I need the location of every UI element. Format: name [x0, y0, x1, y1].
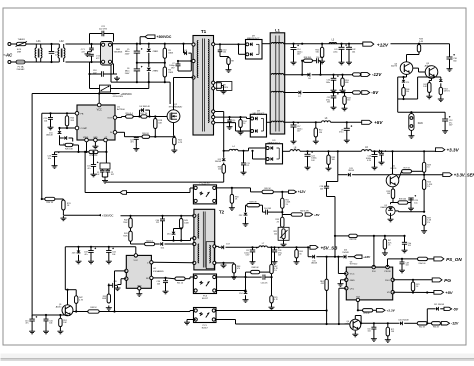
wire CX1 top	[51, 44, 53, 51]
inductor L1	[270, 27, 285, 134]
svg-text:104: 104	[49, 323, 52, 325]
capacitor C45	[246, 275, 273, 285]
svg-text:ZNR1: ZNR1	[153, 51, 159, 53]
wire FAN drop	[398, 99, 445, 116]
diode D20	[398, 320, 417, 326]
resistor R65	[262, 188, 273, 193]
svg-text:R48 10K: R48 10K	[249, 202, 257, 204]
wire Q1 base	[73, 311, 88, 313]
ground ZD4	[243, 298, 249, 303]
net tag +3.3V	[436, 148, 460, 153]
capacitor C35	[108, 281, 121, 290]
ground R52	[57, 329, 63, 334]
net tag +12V vdd	[354, 255, 371, 259]
resistor R58	[301, 57, 312, 63]
transistor Q8b	[425, 63, 438, 78]
wire Q1 collector	[65, 247, 76, 305]
shunt reg U5 KIA431	[380, 205, 398, 217]
ground C37	[250, 260, 256, 265]
IC U3 supervisor	[345, 261, 395, 301]
varistor ZNR1	[147, 43, 159, 64]
net tag -12Vb	[441, 322, 459, 326]
svg-text:250VAC: 250VAC	[17, 68, 25, 71]
resistor R60a	[353, 73, 361, 76]
ground T2 sec	[221, 263, 227, 268]
ground R44b	[342, 106, 348, 111]
wire U5 node	[391, 201, 426, 213]
resistor R74	[411, 280, 419, 294]
svg-text:C44 103: C44 103	[264, 208, 271, 210]
resistor R16	[126, 113, 134, 118]
snubber C9	[218, 43, 227, 56]
resistor R46	[349, 234, 358, 241]
ground C20	[48, 125, 54, 130]
svg-text:R20 1K: R20 1K	[142, 133, 149, 135]
svg-text:GND: GND	[93, 137, 98, 139]
wire VDD line	[308, 247, 312, 256]
svg-text:OUT: OUT	[107, 118, 112, 120]
wire T1 centertap	[215, 83, 224, 89]
svg-text:1N4148: 1N4148	[46, 135, 53, 137]
ground C33	[88, 259, 94, 264]
capacitor C43	[339, 122, 352, 138]
svg-text:330K: 330K	[168, 53, 173, 55]
resistor R43	[123, 228, 132, 244]
svg-text:R50 1K: R50 1K	[46, 202, 53, 204]
bottom gray strip	[1, 354, 474, 362]
capacitor C28	[408, 195, 418, 206]
svg-text:10u: 10u	[48, 158, 51, 160]
svg-text:R65 5K: R65 5K	[264, 188, 271, 190]
wire Q1 to PC1	[99, 310, 193, 312]
capacitor C33	[84, 247, 96, 259]
inductor L3	[322, 118, 331, 122]
svg-text:222 1KV: 222 1KV	[99, 29, 108, 31]
net tag +300VDC	[139, 35, 172, 45]
resistor R12	[314, 122, 322, 139]
svg-text:D21 1N4148: D21 1N4148	[434, 304, 444, 306]
ground C12	[442, 129, 448, 134]
capacitor C42	[346, 44, 355, 65]
diode D6	[301, 73, 312, 80]
svg-text:100u: 100u	[326, 82, 330, 84]
svg-text:1%: 1%	[286, 204, 289, 206]
svg-text:104: 104	[223, 52, 226, 54]
svg-text:D17: D17	[226, 244, 229, 246]
capacitor C23	[47, 152, 59, 164]
resistor R75	[358, 309, 373, 316]
svg-text:680: 680	[345, 82, 348, 84]
svg-text:-5V: -5V	[371, 90, 379, 95]
capacitor C34	[106, 247, 116, 259]
ground C49	[402, 248, 408, 253]
svg-text:+3.3V: +3.3V	[447, 148, 460, 153]
diode D15	[311, 255, 327, 265]
ground U4	[136, 290, 142, 296]
resistor R26	[60, 138, 79, 152]
wire fb to PC2	[127, 188, 194, 193]
resistor R59	[341, 75, 349, 88]
shunt reg RE1	[320, 257, 328, 311]
svg-text:+12V: +12V	[363, 255, 371, 259]
wire sense drop	[338, 151, 348, 174]
capacitor CY2	[89, 54, 101, 62]
ground R22	[171, 148, 177, 153]
wire VDD drop	[327, 197, 337, 258]
diode D14b	[348, 168, 355, 177]
inductor L3a	[329, 40, 337, 44]
wire AC neutral	[11, 61, 16, 63]
capacitor C17	[291, 122, 303, 139]
svg-text:ZNR2: ZNR2	[153, 70, 159, 72]
svg-text:VCC: VCC	[133, 260, 138, 262]
wire -12V feed	[284, 61, 303, 75]
wire COMP net	[58, 127, 75, 131]
wire R33 to Q6	[407, 55, 420, 62]
svg-text:330: 330	[347, 100, 350, 102]
transistor Q6	[391, 62, 413, 75]
wire R65 to tag	[273, 191, 288, 193]
capacitor C21	[90, 26, 114, 44]
ground C14	[291, 60, 297, 65]
ground CY mid	[85, 52, 92, 57]
net tag PS_ON	[434, 257, 462, 262]
ground FAN	[408, 134, 414, 139]
resistor R53	[387, 187, 395, 201]
svg-text:R58 6.19K: R58 6.19K	[300, 211, 309, 213]
capacitor C31b	[87, 151, 98, 177]
svg-text:PC2 EL817: PC2 EL817	[200, 182, 211, 184]
svg-text:103: 103	[157, 284, 160, 286]
ground C16	[43, 329, 49, 334]
diode D16b	[215, 151, 226, 165]
wire bridge out minus	[111, 65, 170, 82]
wire D9b out	[283, 150, 290, 152]
svg-text:47u: 47u	[25, 323, 28, 325]
ground Q4	[352, 331, 358, 337]
capacitor C14	[291, 44, 303, 60]
wire T1 to D8 bot	[215, 123, 250, 131]
svg-text:10: 10	[427, 167, 429, 169]
capacitor C26	[366, 151, 380, 165]
net tag PG	[432, 278, 451, 284]
svg-text:C35: C35	[114, 281, 117, 283]
svg-text:GND: GND	[350, 280, 355, 282]
wire VR1 gnd	[283, 239, 285, 242]
wire to Q8c	[216, 311, 349, 326]
wire T2 drain	[153, 261, 194, 263]
wire D9 out	[262, 43, 271, 45]
wire cap row	[32, 314, 67, 316]
ground R56	[319, 59, 325, 64]
net tag fb arrow	[84, 151, 127, 195]
svg-text:750K: 750K	[123, 222, 128, 224]
svg-text:ICE3A0865: ICE3A0865	[153, 270, 164, 273]
resistor R5	[163, 43, 174, 64]
svg-text:PS_ON: PS_ON	[446, 257, 462, 262]
svg-text:750K: 750K	[123, 235, 128, 237]
svg-text:D10: D10	[167, 234, 170, 236]
svg-text:R8: R8	[231, 60, 233, 62]
capacitor C6	[125, 62, 143, 84]
capacitor C20	[44, 113, 53, 125]
ground C34	[106, 259, 112, 264]
resistor R51	[175, 277, 194, 285]
resistor R60b	[353, 91, 361, 94]
capacitor C41	[333, 44, 347, 60]
resistor R31	[62, 199, 72, 215]
optocoupler PC2	[193, 182, 216, 204]
net tag +3.3Vb	[373, 309, 396, 313]
svg-text:102: 102	[111, 174, 114, 176]
wire CT pin	[105, 142, 107, 163]
wire C18 ext	[114, 73, 118, 75]
resistor R61	[281, 192, 291, 212]
capacitor C56	[313, 57, 324, 75]
ground CT caps	[102, 178, 108, 183]
svg-text:R57 33: R57 33	[403, 168, 409, 170]
svg-text:1N4148: 1N4148	[348, 170, 354, 172]
svg-text:~115V-230V: ~115V-230V	[112, 96, 124, 98]
svg-text:1N4148: 1N4148	[215, 161, 221, 163]
ground U3 GND	[338, 280, 347, 287]
svg-text:C45 225: C45 225	[261, 282, 268, 284]
svg-text:+300VDC: +300VDC	[102, 213, 113, 217]
svg-text:C945: C945	[344, 323, 349, 325]
svg-text:+300VDC: +300VDC	[157, 35, 172, 39]
svg-text:560: 560	[453, 61, 456, 63]
wire U4 FB	[153, 277, 175, 279]
wire R50 row	[41, 198, 45, 200]
wire C1C2 gnd	[102, 177, 107, 178]
wire PC3 out	[217, 276, 247, 278]
wire R16-R17	[133, 116, 141, 118]
resistor R36	[218, 164, 226, 173]
ground U1 GND	[92, 144, 98, 149]
ground centertap	[221, 89, 227, 94]
resistor R37	[422, 215, 432, 228]
svg-text:R66 2K: R66 2K	[433, 327, 440, 329]
svg-text:+5V_SB: +5V_SB	[321, 245, 339, 250]
svg-text:104: 104	[408, 245, 411, 247]
net tag +3.3V_SEN	[424, 173, 474, 178]
wire pson right	[388, 258, 418, 260]
svg-text:-12V: -12V	[451, 322, 459, 326]
ground R102b	[438, 97, 444, 102]
wire to 300VDC tag	[63, 214, 101, 217]
ground R31	[60, 216, 66, 221]
svg-text:D20 1N4148: D20 1N4148	[398, 320, 408, 322]
resistor R70	[270, 274, 279, 305]
resistor R6	[163, 63, 174, 83]
svg-text:PGO: PGO	[385, 280, 390, 282]
resistor R47	[75, 290, 84, 313]
svg-text:-5V: -5V	[453, 307, 459, 311]
resistor R56	[315, 44, 323, 59]
svg-text:R68 10K: R68 10K	[252, 267, 260, 269]
svg-text:103: 103	[406, 265, 409, 267]
wire PC2 out	[217, 187, 263, 192]
wire CX1 to LF2 bottom	[50, 61, 59, 63]
svg-text:BT151: BT151	[391, 168, 398, 170]
ground R63b	[231, 275, 237, 280]
timing network box	[100, 163, 110, 169]
bridge rectifier DB1	[101, 42, 123, 66]
diode D3	[182, 43, 193, 61]
capacitor C12	[442, 116, 453, 129]
svg-text:100: 100	[406, 91, 409, 93]
ground C55	[331, 105, 337, 110]
transistor Q1	[56, 304, 73, 316]
wire U1 GND pin	[94, 142, 96, 144]
svg-text:VCC: VCC	[97, 109, 102, 112]
wire snubber bottom	[163, 227, 195, 241]
capacitor C13	[241, 151, 250, 175]
label 300VDC switch box	[217, 82, 232, 91]
svg-text:47u: 47u	[84, 254, 87, 256]
svg-text:100: 100	[332, 159, 335, 161]
wire R39 drop	[108, 284, 110, 295]
capacitor C40	[156, 216, 165, 241]
diode D16	[342, 250, 353, 259]
capacitor C50	[367, 323, 376, 336]
resistor R49b	[246, 202, 260, 213]
capacitor C2	[105, 169, 113, 177]
ground C15	[29, 329, 35, 334]
wire d21 vert	[426, 309, 431, 325]
svg-text:T2: T2	[219, 210, 225, 215]
wire VDD mid	[326, 256, 344, 258]
inductor LF2	[58, 40, 65, 62]
capacitor C7	[169, 60, 193, 71]
capacitor C36	[157, 278, 168, 289]
ground R39	[106, 306, 112, 311]
wire LF2 to bridge bottom	[66, 61, 101, 63]
junction CY top	[90, 43, 92, 63]
resistor R63b	[232, 263, 240, 275]
diode D11	[46, 131, 62, 138]
ground C23	[52, 164, 58, 169]
svg-text:R46 20K: R46 20K	[350, 239, 358, 241]
wire HV minus drop	[169, 82, 171, 104]
resistor R25	[65, 113, 75, 128]
resistor R102	[439, 87, 450, 97]
resistor R41	[423, 78, 432, 94]
wire CX1 bottom	[51, 55, 53, 62]
resistor R20	[142, 133, 150, 138]
svg-text:EL817: EL817	[202, 327, 209, 329]
svg-text:1%: 1%	[427, 186, 430, 188]
diode D21	[427, 304, 444, 311]
ground C41	[339, 60, 345, 65]
inductor L4	[223, 146, 249, 152]
wire 3V3 fb	[106, 173, 224, 186]
svg-text:104: 104	[232, 122, 235, 124]
svg-text:150: 150	[319, 132, 322, 134]
wire +3.3V rail	[372, 150, 436, 153]
svg-text:470: 470	[237, 268, 240, 270]
mosfet Q2	[167, 104, 183, 123]
wire T1 primary drain	[174, 78, 194, 110]
wire U3 VCC	[338, 257, 346, 274]
thyristor Q5	[386, 151, 399, 187]
svg-text:VCC: VCC	[350, 274, 355, 276]
resistor R46b	[402, 88, 410, 100]
capacitor C48	[400, 259, 409, 268]
net tag 300VDC to VCC	[121, 92, 132, 96]
svg-text:1%: 1%	[427, 222, 430, 224]
wire left vertical bus	[31, 94, 33, 317]
svg-text:+12V: +12V	[377, 42, 389, 48]
ground ZD2	[243, 222, 249, 227]
net tag +5V_SB	[310, 245, 338, 250]
diode D7	[284, 91, 353, 98]
capacitor C28b	[320, 175, 338, 197]
wire F1 to LF1	[25, 61, 52, 63]
ground U5	[388, 217, 394, 222]
capacitor CX1	[49, 52, 60, 57]
svg-text:R48 1K: R48 1K	[90, 307, 97, 309]
resistor R71	[386, 323, 395, 337]
net tag +5V	[362, 120, 384, 125]
svg-text:05R: 05R	[17, 51, 21, 53]
svg-text:+5V: +5V	[374, 120, 383, 125]
wire VDD rail2	[334, 235, 406, 237]
wire +5V rail	[284, 121, 322, 123]
transistor Q4	[344, 319, 360, 330]
ground R41	[426, 94, 432, 99]
svg-text:R58 R05: R58 R05	[304, 57, 311, 59]
wire PSON pin	[387, 259, 389, 267]
varistor ZNR2	[147, 63, 159, 83]
svg-text:A1015: A1015	[56, 306, 63, 309]
capacitor C38	[272, 247, 282, 260]
transformer T2	[193, 209, 225, 270]
voltage selector SW1	[88, 73, 149, 98]
svg-text:222: 222	[156, 222, 159, 224]
svg-text:THER1: THER1	[18, 39, 26, 41]
ground R35	[326, 166, 332, 171]
IC U1 KA3511	[75, 103, 117, 142]
inductor L7	[253, 243, 268, 247]
transformer T1	[192, 29, 215, 135]
resistor R62	[417, 322, 427, 329]
svg-text:VREF: VREF	[83, 137, 89, 139]
capacitor C18	[90, 62, 114, 77]
resistor R7B	[89, 150, 108, 157]
svg-text:PSON: PSON	[385, 271, 391, 273]
resistor R35	[327, 151, 335, 166]
svg-text:KF12N60B2D: KF12N60B2D	[169, 106, 183, 108]
wire T1 to D9 top	[215, 43, 246, 45]
terminal J1 neutral	[8, 61, 11, 64]
svg-text:-12V: -12V	[372, 72, 382, 77]
net label 300VDC small	[102, 213, 113, 217]
wire +12V aux rail	[391, 43, 450, 45]
svg-text:200V: 200V	[125, 73, 130, 75]
resistor R28	[422, 151, 430, 179]
wire fb bottom	[216, 309, 328, 311]
inductor LF1	[35, 40, 42, 62]
wire LF2 to bridge top	[66, 43, 101, 45]
svg-text:LF1: LF1	[36, 40, 41, 43]
inductor L6	[362, 147, 372, 151]
resistor R18	[154, 115, 163, 136]
svg-text:R16 5.1: R16 5.1	[126, 113, 134, 115]
svg-text:GND: GND	[137, 286, 142, 288]
svg-text:R6b 100: R6b 100	[419, 263, 426, 265]
snubber R14	[238, 117, 247, 135]
